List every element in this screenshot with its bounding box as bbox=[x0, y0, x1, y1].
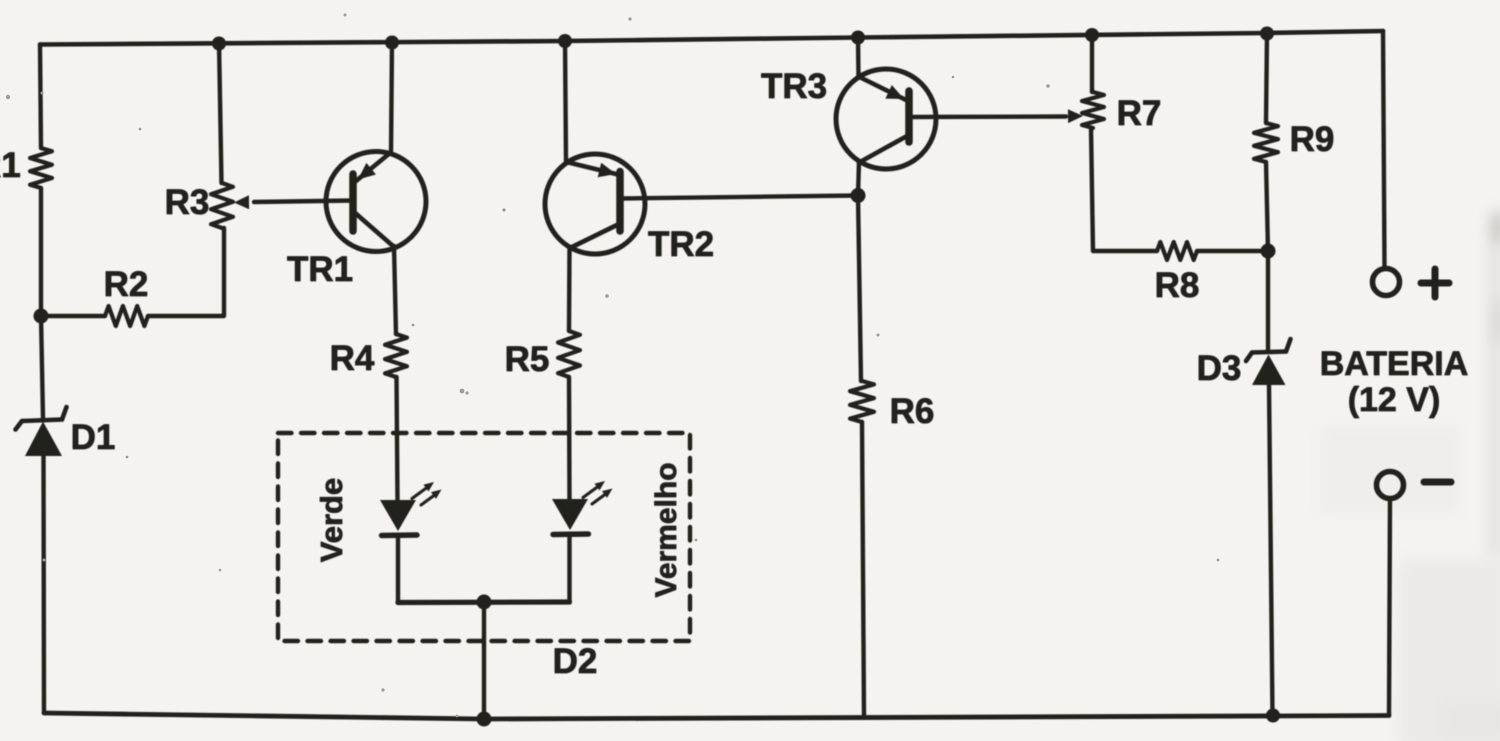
transistor TR2 (PNP, mirrored) bbox=[545, 154, 645, 254]
svg-text:R8: R8 bbox=[1155, 266, 1200, 305]
svg-text:D3: D3 bbox=[1197, 349, 1242, 388]
wire: node to R6 bbox=[858, 196, 861, 382]
svg-text:R9: R9 bbox=[1290, 120, 1335, 159]
wire: top rail to TR1 emitter bbox=[391, 41, 392, 154]
resistor R1 bbox=[30, 148, 52, 188]
svg-text:TR1: TR1 bbox=[287, 250, 353, 289]
wire: top rail to + terminal bbox=[1383, 31, 1385, 266]
wire: top rail to TR2 emitter bbox=[565, 40, 566, 162]
wire: left rail R1 to R2 node bbox=[39, 188, 43, 316]
wire: left rail node to D1 bbox=[41, 316, 43, 418]
node: LED cathode junction bbox=[477, 595, 492, 610]
svg-text:BATERIA: BATERIA bbox=[1320, 345, 1469, 383]
transistor TR3 (PNP, mirrored) bbox=[836, 69, 936, 169]
wire: R8 to R9/D3 node bbox=[1197, 249, 1268, 253]
node: TR2 base / TR3 / R6 junction bbox=[851, 188, 866, 203]
node: top rail / R9 bbox=[1260, 27, 1274, 41]
label Verde (rotated) bbox=[314, 478, 349, 562]
wire: top positive rail bbox=[40, 31, 1383, 45]
wire: top rail to R3 bbox=[219, 42, 222, 183]
svg-text:R1: R1 bbox=[0, 146, 21, 185]
node: top rail / TR1 emitter bbox=[385, 36, 399, 50]
svg-text:R2: R2 bbox=[104, 265, 149, 304]
label R8 bbox=[1155, 266, 1200, 305]
node: top rail / R7 bbox=[1085, 28, 1099, 42]
node: top rail / R3 branch bbox=[212, 37, 226, 51]
zener diode D1 bbox=[16, 407, 67, 456]
wire: D3 to bottom rail bbox=[1269, 385, 1273, 715]
resistor R5 bbox=[558, 331, 580, 377]
terminal: battery + bbox=[1373, 269, 1400, 296]
wire: - terminal to bottom rail bbox=[1389, 499, 1390, 716]
zener diode D3 bbox=[1246, 339, 1291, 385]
resistor R8 bbox=[1157, 242, 1197, 260]
label R4 bbox=[330, 339, 375, 378]
wire: TR3 base (wiper) to R7 bbox=[909, 109, 1083, 123]
terminal: battery - bbox=[1377, 472, 1404, 499]
wire: LED junction to bottom rail bbox=[482, 602, 486, 719]
label R2 bbox=[104, 265, 149, 304]
svg-text:R4: R4 bbox=[330, 339, 375, 378]
svg-text:TR2: TR2 bbox=[648, 225, 714, 264]
wire: left rail (top corner to R1) bbox=[40, 45, 41, 149]
wire: TR2 collector to R5 bbox=[567, 248, 572, 331]
wire: top rail to R7 bbox=[1090, 35, 1094, 92]
node: top rail / TR3 collector bbox=[851, 31, 865, 45]
label (12 V) bbox=[1348, 381, 1441, 419]
label D2 bbox=[553, 642, 598, 681]
wire: bottom ground rail bbox=[44, 713, 1389, 719]
wire: green LED cathode down bbox=[396, 535, 400, 603]
wire: TR1 collector to R4 bbox=[394, 246, 396, 334]
wire: top rail to R9 bbox=[1266, 33, 1267, 123]
resistor R4 bbox=[385, 334, 407, 377]
svg-text:D2: D2 bbox=[553, 642, 598, 681]
resistor R6 bbox=[850, 381, 874, 422]
label D3 bbox=[1197, 349, 1242, 388]
wire: R9 to node bbox=[1266, 162, 1268, 251]
wire: R5 to red LED anode bbox=[567, 377, 572, 500]
wire: node to D3 bbox=[1266, 251, 1270, 351]
svg-text:R3: R3 bbox=[165, 183, 210, 222]
node: bottom rail / D3 bbox=[1266, 709, 1280, 723]
wire: TR3 bottom to TR2-base node bbox=[858, 161, 859, 196]
label - sign bbox=[1424, 479, 1451, 486]
label R9 bbox=[1290, 120, 1335, 159]
label + sign bbox=[1421, 269, 1449, 297]
wire: top rail to TR3 top bbox=[856, 37, 861, 78]
label TR3 bbox=[761, 67, 827, 106]
enclosure D2 (dashed) bbox=[278, 433, 690, 641]
label TR1 bbox=[287, 250, 353, 289]
transistor TR1 (PNP) bbox=[326, 152, 426, 252]
wire: R4 to green LED anode bbox=[397, 377, 398, 501]
LED D2b (Vermelho) bbox=[552, 481, 613, 535]
svg-text:Vermelho: Vermelho bbox=[650, 462, 683, 597]
svg-text:R5: R5 bbox=[505, 340, 550, 379]
label D1 bbox=[71, 418, 116, 457]
resistor R2 bbox=[105, 306, 148, 326]
label BATERIA bbox=[1320, 345, 1469, 383]
label R3 bbox=[165, 183, 210, 222]
wire: R2 left lead bbox=[41, 314, 105, 318]
wire: TR2 base to TR3/R6 node bbox=[620, 196, 858, 199]
LED D2a (Verde) bbox=[380, 482, 442, 536]
svg-text:TR3: TR3 bbox=[761, 67, 827, 106]
node: junction left rail / R2 / D1 bbox=[34, 309, 49, 324]
label Vermelho (rotated) bbox=[650, 462, 683, 597]
node: R8 / R9 / D3 junction bbox=[1261, 244, 1276, 259]
wire: red LED cathode down bbox=[567, 534, 571, 602]
svg-text:(12 V): (12 V) bbox=[1348, 381, 1441, 419]
label R5 bbox=[505, 340, 550, 379]
resistor R9 bbox=[1254, 123, 1278, 162]
node: bottom rail / D2 bbox=[477, 712, 492, 727]
svg-text:R6: R6 bbox=[890, 392, 935, 431]
potentiometer R7 bbox=[1082, 92, 1104, 128]
wire: R2 right lead to R3 bottom bbox=[148, 228, 224, 316]
svg-text:R7: R7 bbox=[1117, 94, 1162, 133]
label R7 bbox=[1117, 94, 1162, 133]
wire: R7 bottom to R8 bbox=[1091, 128, 1157, 251]
label R6 bbox=[890, 392, 935, 431]
wire: D1 to bottom-left corner bbox=[41, 455, 46, 713]
label TR2 bbox=[648, 225, 714, 264]
wire: LED cathodes joined bbox=[398, 599, 570, 605]
wire: R6 to bottom rail bbox=[862, 422, 864, 717]
potentiometer R3 bbox=[211, 183, 233, 228]
svg-text:D1: D1 bbox=[71, 418, 116, 457]
wire: R3 wiper arrow from TR1 base bbox=[234, 195, 353, 209]
svg-text:Verde: Verde bbox=[314, 478, 349, 562]
node: top rail / TR2 emitter bbox=[558, 34, 572, 48]
label R1 (clipped at page edge) bbox=[0, 146, 21, 185]
